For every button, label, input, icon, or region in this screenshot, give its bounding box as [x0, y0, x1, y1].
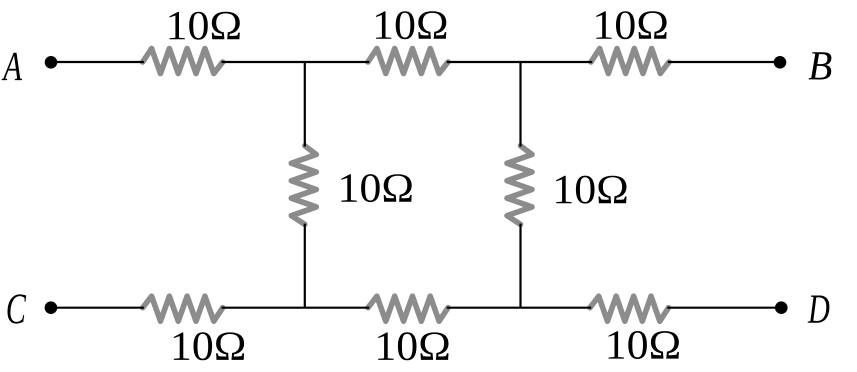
wire top junction 1 to left vertical resistor [304, 62, 306, 147]
wire top-right resistor to B [668, 61, 780, 63]
node A label [2, 53, 22, 80]
wire top-middle resistor to top-right resistor [447, 61, 592, 63]
wire top-left resistor to top-middle resistor [222, 61, 370, 63]
resistor 10&#937; (bottom right, D-side) [590, 296, 669, 321]
resistor 10&#937; (top middle) [368, 49, 448, 74]
value label 10&#937; (right vertical) [556, 176, 626, 204]
value label 10&#937; (top right) [596, 11, 666, 39]
wire C to bottom-left resistor [51, 307, 144, 309]
value label 10&#937; (bottom middle) [378, 332, 448, 360]
resistor 10&#937; (left vertical) [291, 146, 316, 225]
value label 10&#937; (left vertical) [341, 174, 411, 202]
node D terminal dot [775, 301, 788, 314]
value label 10&#937; (bottom left) [174, 332, 244, 360]
value label 10&#937; (top middle) [376, 11, 446, 39]
node A terminal dot [45, 56, 58, 69]
node B label [809, 52, 832, 79]
resistor 10&#937; (bottom middle) [368, 296, 448, 321]
wire bottom-middle resistor to bottom-right resistor [447, 307, 591, 309]
node C terminal dot [45, 301, 58, 314]
node C label [8, 294, 27, 323]
wire right vertical resistor to bottom junction 2 [519, 224, 521, 308]
wire bottom-right resistor to D [667, 307, 781, 309]
resistor 10&#937; (right vertical) [507, 146, 532, 225]
resistor 10&#937; (top left, A-side) [143, 49, 223, 74]
wire left vertical resistor to bottom junction 1 [304, 224, 306, 308]
wire A to top-left resistor [51, 61, 144, 63]
wire top junction 2 to right vertical resistor [519, 62, 521, 147]
resistor 10&#937; (bottom left, C-side) [143, 296, 223, 321]
wire bottom-left resistor to bottom-middle resistor [222, 307, 370, 309]
node D label [808, 296, 830, 323]
value label 10&#937; (top left) [170, 12, 240, 40]
value label 10&#937; (bottom right) [609, 331, 679, 359]
resistor 10&#937; (top right, B-side) [591, 49, 669, 74]
node B terminal dot [774, 56, 787, 69]
